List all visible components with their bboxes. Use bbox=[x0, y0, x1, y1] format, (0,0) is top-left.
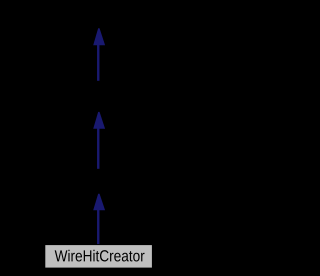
inheritance arrow 1 (top, to invisible base-class node) bbox=[93, 28, 105, 81]
wire: arrow 1 shaft bbox=[97, 45, 99, 81]
inheritance arrow 2 (middle, to invisible base-class node) bbox=[93, 112, 105, 169]
arrowhead 3 bbox=[93, 194, 105, 211]
inheritance arrow 3 (bottom, from WireHitCreator node) bbox=[93, 194, 105, 245]
node label text: WireHitCreator (as paths) bbox=[55, 250, 145, 262]
arrowhead 1 bbox=[93, 28, 105, 45]
wire: arrow 3 shaft bbox=[97, 210, 99, 245]
node box fill and border bbox=[45, 245, 153, 269]
wire: arrow 2 shaft bbox=[97, 128, 99, 169]
node WireHitCreator bbox=[45, 245, 153, 269]
arrowhead 2 bbox=[93, 112, 105, 129]
